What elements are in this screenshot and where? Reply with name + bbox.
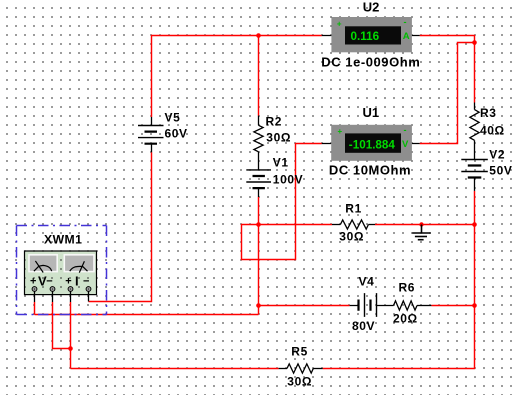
wire: junction to V4 left [259, 305, 350, 307]
svg-text:80V: 80V [352, 319, 375, 333]
resistor R5 [279, 364, 323, 373]
wire: R6 right to bus [431, 305, 474, 307]
svg-text:R3: R3 [480, 106, 497, 120]
wattmeter XWM1 [25, 251, 97, 302]
svg-text:30Ω: 30Ω [339, 230, 364, 244]
svg-text:-: - [404, 17, 407, 27]
resistor R1 [332, 220, 375, 229]
wire: U1 right to bus tap [420, 43, 475, 144]
svg-text:U1: U1 [362, 105, 379, 120]
svg-text:V1: V1 [273, 156, 289, 170]
svg-text:+: + [338, 127, 343, 136]
wire top: V5 top to U2 left [152, 36, 322, 118]
svg-text:30Ω: 30Ω [266, 130, 291, 144]
resistor R3 [470, 103, 479, 160]
junction at bus U1 tap [472, 40, 477, 45]
svg-text:R1: R1 [345, 202, 362, 216]
wire: terminal2 down and jog right [53, 302, 71, 349]
junction R6 / right bus [472, 303, 477, 308]
svg-text:XWM1: XWM1 [44, 233, 82, 247]
resistor R6 [394, 301, 432, 310]
svg-text:R2: R2 [266, 114, 283, 128]
svg-text:100V: 100V [273, 173, 303, 187]
svg-text:+: + [30, 276, 36, 288]
svg-text:0.116: 0.116 [351, 30, 380, 43]
svg-text:I: I [75, 274, 79, 289]
wire: bottom left of R5 [71, 368, 279, 370]
svg-text:50V: 50V [489, 164, 512, 178]
wire: V5 bottom to wattmeter terminal 4 [89, 152, 152, 301]
wire: U2 right, down bus to R3 [420, 36, 475, 103]
wire: terminal3 down to bottom wire [70, 302, 72, 369]
svg-text:DC 1e-009Ohm: DC 1e-009Ohm [321, 54, 420, 69]
junction ground tap [419, 222, 423, 226]
svg-text:R5: R5 [291, 344, 308, 358]
svg-text:+: + [337, 19, 342, 28]
wire: terminal1 stub down [34, 302, 36, 315]
svg-text:60V: 60V [165, 126, 188, 140]
instrument boundary box [17, 226, 107, 315]
svg-text:+: + [65, 276, 71, 288]
wire: V1 bottom vertical [258, 197, 260, 315]
svg-text:30Ω: 30Ω [287, 374, 312, 388]
junction V1 branch / V4 wire [256, 303, 261, 308]
svg-text:V2: V2 [489, 148, 505, 162]
svg-text:DC 10MOhm: DC 10MOhm [329, 162, 411, 177]
svg-text:-101.884: -101.884 [349, 138, 396, 151]
battery V5 [138, 117, 164, 152]
wire: terminal1 horizontal to V1 branch [35, 314, 259, 316]
svg-text:R6: R6 [399, 280, 416, 294]
junction terminal2/3 [68, 346, 73, 351]
wire: R1 left segment [259, 224, 333, 226]
svg-text:V4: V4 [359, 275, 375, 289]
wire: top tap down to R2 [258, 36, 260, 116]
battery V4 [350, 293, 394, 317]
resistor R2 [254, 116, 263, 170]
svg-text:−: − [46, 276, 52, 288]
battery V2 [461, 160, 488, 191]
svg-text:−: − [83, 276, 89, 288]
battery V1 [246, 170, 271, 197]
svg-text:U2: U2 [363, 0, 380, 15]
junction R1 wire / right bus [472, 222, 477, 227]
svg-text:-: - [404, 125, 407, 135]
junction V1 branch / R1 wire [256, 222, 261, 227]
wire: R1 right segment to right bus [375, 224, 475, 226]
wire: U1 left loop [242, 144, 322, 260]
multimeter U2 [322, 17, 420, 52]
multimeter U1 [322, 125, 420, 161]
svg-text:A: A [403, 31, 410, 42]
ground [412, 225, 430, 240]
svg-text:V: V [402, 139, 409, 150]
junction at top tap [256, 33, 261, 38]
svg-text:40Ω: 40Ω [480, 124, 505, 138]
wire: V2 bottom down and left to R5 [323, 191, 475, 369]
svg-text:20Ω: 20Ω [393, 311, 418, 325]
svg-text:V5: V5 [165, 110, 181, 124]
